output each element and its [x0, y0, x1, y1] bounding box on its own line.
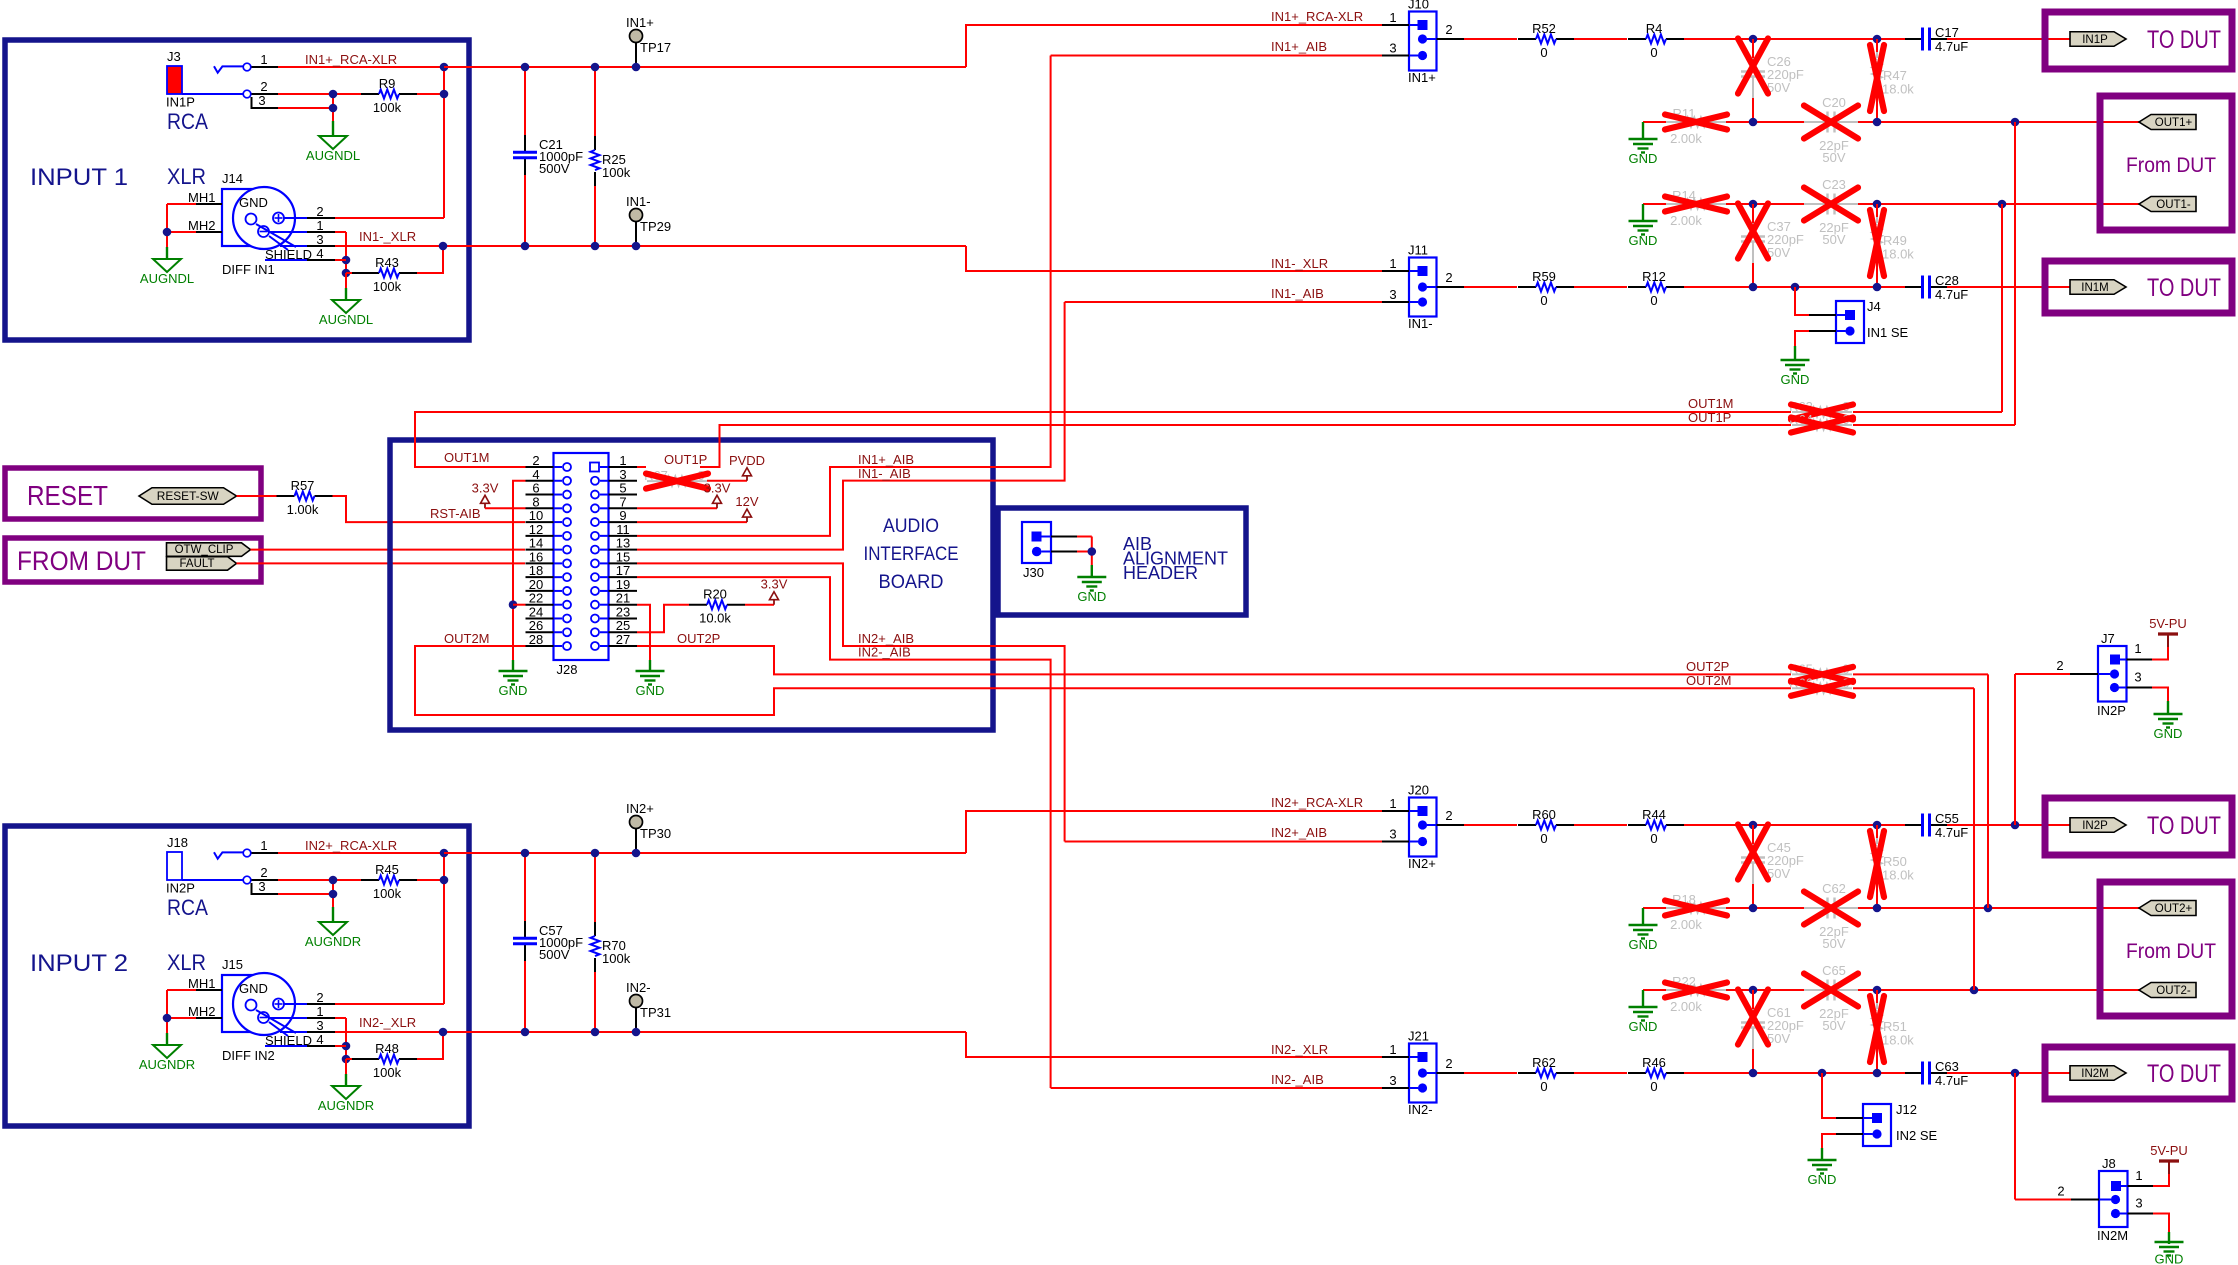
- wire OUT2+ riser: [1987, 674, 1989, 908]
- svg-text:IN2+: IN2+: [626, 801, 654, 816]
- svg-text:J8: J8: [2102, 1156, 2116, 1171]
- ground GND (J28 left): [499, 670, 528, 672]
- svg-text:GND: GND: [636, 683, 665, 698]
- svg-text:J11: J11: [1408, 243, 1428, 258]
- svg-text:RCA: RCA: [167, 109, 208, 134]
- ground GND (J28 right): [636, 670, 665, 672]
- resistor R46: [1628, 1072, 1646, 1074]
- svg-text:R62: R62: [1532, 1055, 1556, 1070]
- svg-text:OTW_CLIP: OTW_CLIP: [175, 544, 234, 556]
- svg-text:R52: R52: [1532, 21, 1556, 36]
- svg-text:IN1P: IN1P: [166, 95, 195, 110]
- svg-text:R12: R12: [1642, 269, 1666, 284]
- svg-text:C62: C62: [1822, 881, 1846, 896]
- resistor R65 (DNP 0-ohm): [1792, 673, 1812, 675]
- power 12V: [746, 517, 748, 522]
- wire GND to R22: [1643, 989, 1666, 991]
- svg-text:8: 8: [532, 494, 539, 509]
- AIB ALIGNMENT HEADER harness box: [998, 508, 1246, 615]
- J28 pin 23: [609, 617, 638, 619]
- svg-text:17: 17: [616, 563, 630, 578]
- svg-text:IN2+_RCA-XLR: IN2+_RCA-XLR: [305, 838, 397, 853]
- svg-text:J12: J12: [1896, 1102, 1917, 1117]
- svg-text:4.7uF: 4.7uF: [1935, 1073, 1968, 1088]
- J20 pin 2: [1437, 824, 1465, 826]
- connector J21 (IN2-): [1409, 1044, 1437, 1103]
- wire jack ground tie: [332, 94, 334, 121]
- ground GND (OUT2+ term): [1629, 924, 1658, 926]
- resistor R43: [361, 272, 379, 274]
- power 3.3V (R20): [773, 600, 775, 605]
- wire C26 stubs: [1752, 39, 1754, 58]
- svg-text:IN1-_AIB: IN1-_AIB: [858, 466, 911, 481]
- wire jack ground tie: [332, 880, 334, 907]
- wire C55 to IN2P flag: [1947, 824, 2070, 826]
- J11 pin 2: [1437, 286, 1465, 288]
- svg-text:27: 27: [616, 632, 630, 647]
- svg-text:AUGNDL: AUGNDL: [319, 312, 373, 327]
- J18 pin 1: [252, 852, 279, 854]
- node IN1M: [2070, 280, 2126, 295]
- svg-text:IN2-_XLR: IN2-_XLR: [359, 1015, 416, 1030]
- J15 pin 1: [269, 1017, 307, 1019]
- J11 pin 3: [1382, 301, 1409, 303]
- ground GND (J7): [2154, 713, 2183, 715]
- wire IN1-_AIB from J28 pin 13: [637, 302, 1065, 550]
- svg-text:22: 22: [529, 591, 543, 606]
- svg-text:TO DUT: TO DUT: [2147, 812, 2221, 840]
- svg-text:TP29: TP29: [640, 219, 671, 234]
- wire R9 to bus: [417, 93, 444, 95]
- power PVDD: [746, 476, 748, 481]
- svg-text:PVDD: PVDD: [729, 453, 765, 468]
- svg-text:IN1 SE: IN1 SE: [1867, 325, 1909, 340]
- resistor R62: [1518, 1072, 1536, 1074]
- svg-text:J3: J3: [167, 49, 181, 64]
- svg-text:2.00k: 2.00k: [1670, 999, 1702, 1014]
- svg-text:2: 2: [1445, 808, 1452, 823]
- svg-text:5V-PU: 5V-PU: [2150, 1143, 2188, 1158]
- ground GND (J12): [1808, 1159, 1837, 1161]
- svg-text:AUGNDL: AUGNDL: [306, 148, 360, 163]
- resistor R57: [277, 495, 295, 497]
- J28 pin 15: [609, 562, 638, 564]
- svg-text:OUT1P: OUT1P: [664, 452, 707, 467]
- wire FAULT to J28 pin 16: [237, 562, 526, 564]
- ground GND (OUT1+ term): [1629, 138, 1658, 140]
- wire J8 pin2 riser to IN2M: [2015, 1199, 2071, 1201]
- J20 pin 1: [1382, 810, 1409, 812]
- wire R22 to C65: [1726, 989, 1804, 991]
- wire J3 pin 2 to R: [278, 93, 363, 95]
- svg-text:AUGNDL: AUGNDL: [140, 271, 194, 286]
- svg-text:OUT1M: OUT1M: [444, 450, 490, 465]
- svg-text:14: 14: [529, 536, 543, 551]
- wire OUT1P from J28 pin 1: [637, 466, 646, 468]
- J30 pin 1 wire: [1051, 536, 1077, 538]
- resistor R47 (DNP): [1876, 52, 1878, 58]
- J28 pin 10: [526, 521, 554, 523]
- svg-text:AUDIO: AUDIO: [883, 516, 939, 537]
- resistor R12: [1628, 286, 1646, 288]
- svg-text:TO DUT: TO DUT: [2147, 1060, 2221, 1088]
- wire OUT1+ riser: [2014, 122, 2016, 425]
- wire R51 stubs: [1876, 990, 1878, 1003]
- capacitor C21: [524, 135, 526, 152]
- svg-text:XLR: XLR: [167, 164, 206, 189]
- svg-text:FROM DUT: FROM DUT: [17, 546, 146, 576]
- node OUT1-: [2139, 197, 2196, 212]
- wire R46 to C63: [1684, 1072, 1905, 1074]
- wire J15 pin 2 to bus: [335, 1003, 444, 1005]
- wire J21 pin2 to R62: [1464, 1072, 1517, 1074]
- svg-text:TP30: TP30: [640, 826, 671, 841]
- svg-text:18.0k: 18.0k: [1882, 1033, 1914, 1048]
- wire OUT1M from J28 pin 2: [415, 412, 1791, 467]
- svg-text:R46: R46: [1642, 1055, 1666, 1070]
- J14 pin 3: [280, 245, 307, 247]
- svg-text:AUGNDR: AUGNDR: [139, 1057, 195, 1072]
- svg-text:IN2-: IN2-: [626, 980, 651, 995]
- svg-text:INTERFACE: INTERFACE: [864, 544, 959, 565]
- resistor R25: [594, 136, 596, 150]
- svg-text:0: 0: [1540, 293, 1547, 308]
- svg-text:2.00k: 2.00k: [1670, 131, 1702, 146]
- capacitor C37 (DNP): [1752, 223, 1754, 236]
- svg-text:100k: 100k: [602, 951, 631, 966]
- svg-text:0: 0: [1650, 45, 1657, 60]
- svg-text:GND: GND: [239, 195, 268, 210]
- wire J20 pin2 to R60: [1464, 824, 1517, 826]
- connector J7 (IN2P monitor): [2098, 646, 2127, 702]
- svg-text:1: 1: [2135, 1168, 2142, 1183]
- svg-text:IN2-_AIB: IN2-_AIB: [858, 645, 911, 660]
- svg-text:IN2P: IN2P: [166, 881, 195, 896]
- svg-text:2: 2: [1445, 1056, 1452, 1071]
- wire C65 to OUT2- flag: [1858, 989, 2139, 991]
- resistor R51 (DNP): [1876, 1003, 1878, 1009]
- wire OUT1M to OUT1- riser: [1853, 411, 2002, 413]
- ground GND (J8): [2155, 1241, 2184, 1243]
- J28 pin 11: [609, 535, 638, 537]
- svg-text:2: 2: [2056, 658, 2063, 673]
- test point TP30 (IN2+): [635, 828, 637, 853]
- node OUT1+: [2139, 115, 2196, 130]
- resistor R52: [1518, 38, 1536, 40]
- wire IN1-_XLR: [335, 245, 966, 247]
- svg-text:IN1+: IN1+: [1408, 70, 1436, 85]
- wire C63 to IN2M flag: [1947, 1072, 2070, 1074]
- svg-text:INPUT 2: INPUT 2: [30, 950, 128, 977]
- wire J15 pin 4: [335, 1045, 346, 1047]
- J28 pin 18: [526, 576, 554, 578]
- J28 pin 13: [609, 549, 638, 551]
- svg-text:J18: J18: [167, 835, 188, 850]
- wire R20 to 3.3V: [745, 604, 774, 606]
- svg-text:1: 1: [316, 218, 323, 233]
- port FAULT: [167, 557, 237, 571]
- wire J14 pin 2 to bus: [335, 217, 444, 219]
- svg-text:3: 3: [258, 93, 265, 108]
- ground AUGNDR: [153, 1045, 181, 1058]
- wire IN2-_AIB from J28 pin 17: [637, 577, 1051, 1088]
- svg-text:9: 9: [619, 508, 626, 523]
- wire RESET-SW to R57: [237, 495, 277, 497]
- svg-text:MH1: MH1: [188, 190, 215, 205]
- svg-text:23: 23: [616, 604, 630, 619]
- J28 pin 17: [609, 576, 638, 578]
- svg-text:IN2P: IN2P: [2082, 820, 2108, 832]
- J28 pin 7: [609, 507, 638, 509]
- svg-text:R59: R59: [1532, 269, 1556, 284]
- resistor R44: [1628, 824, 1646, 826]
- RESET harness box: [5, 468, 261, 519]
- svg-text:2.00k: 2.00k: [1670, 917, 1702, 932]
- svg-text:R48: R48: [375, 1041, 399, 1056]
- wire R59 to R12: [1574, 286, 1627, 288]
- ground GND (OUT2- term): [1629, 1006, 1658, 1008]
- wire J28 pin 25 to R20: [637, 605, 689, 633]
- J28 pin 12: [526, 535, 554, 537]
- wire C62 to OUT2+ flag: [1858, 907, 2139, 909]
- svg-text:16: 16: [529, 549, 543, 564]
- TO DUT box (IN2P): [2045, 798, 2232, 855]
- wire C17 to IN1P flag: [1947, 38, 2070, 40]
- wire J28 pin 3 to PVDD: [707, 480, 747, 482]
- svg-text:R44: R44: [1642, 807, 1666, 822]
- svg-text:R4: R4: [1646, 21, 1663, 36]
- svg-text:GND: GND: [1629, 1019, 1658, 1034]
- svg-text:2: 2: [260, 865, 267, 880]
- J7 pin 3: [2127, 687, 2153, 689]
- svg-text:IN2-: IN2-: [1408, 1102, 1433, 1117]
- svg-text:3: 3: [258, 879, 265, 894]
- J28 pin 28: [526, 645, 554, 647]
- svg-text:IN1+_AIB: IN1+_AIB: [1271, 39, 1327, 54]
- connector J8 (IN2M monitor): [2099, 1171, 2128, 1227]
- svg-text:3: 3: [316, 232, 323, 247]
- svg-text:20: 20: [529, 577, 543, 592]
- wire J7 pin3 to ground: [2152, 688, 2168, 702]
- wire J15 pin 1 jog: [335, 1017, 346, 1019]
- wire R49 stubs: [1876, 204, 1878, 217]
- capacitor C57: [524, 853, 526, 922]
- capacitor C63: [1905, 1072, 1923, 1074]
- ground GND (J4): [1781, 359, 1810, 361]
- ground GND (OUT1- term): [1629, 220, 1658, 222]
- svg-text:100k: 100k: [373, 279, 402, 294]
- wire R52 to R4: [1574, 38, 1627, 40]
- From DUT box (OUT1): [2100, 96, 2232, 230]
- wire shield tie: [345, 232, 347, 273]
- wire C23 to OUT1- flag: [1858, 203, 2139, 205]
- J28 pin 5: [609, 494, 638, 496]
- svg-text:3: 3: [1389, 287, 1396, 302]
- svg-text:J14: J14: [222, 171, 243, 186]
- svg-text:IN1+_RCA-XLR: IN1+_RCA-XLR: [305, 52, 397, 67]
- svg-text:J10: J10: [1408, 0, 1429, 12]
- FROM DUT harness box: [5, 538, 261, 582]
- svg-text:2: 2: [1445, 270, 1452, 285]
- J8 pin 3: [2128, 1213, 2154, 1215]
- svg-text:RESET-SW: RESET-SW: [157, 491, 219, 503]
- svg-text:BOARD: BOARD: [879, 572, 944, 593]
- resistor R66 (DNP 0-ohm): [1792, 687, 1812, 689]
- svg-text:DIFF IN1: DIFF IN1: [222, 262, 275, 277]
- J4 pin 1 wire: [1795, 287, 1809, 315]
- svg-text:0: 0: [1650, 831, 1657, 846]
- svg-text:IN2 SE: IN2 SE: [1896, 1128, 1938, 1143]
- svg-text:IN1+_AIB: IN1+_AIB: [858, 452, 914, 467]
- capacitor C62 (DNP): [1804, 907, 1828, 909]
- wire J8 pin1 to 5V-PU: [2153, 1174, 2169, 1186]
- svg-text:OUT1P: OUT1P: [1688, 410, 1731, 425]
- wire IN2+_RCA-XLR from J18 pin 1: [278, 852, 444, 854]
- wire OUT2M from J28 pin 28: [415, 646, 1791, 715]
- svg-text:From DUT: From DUT: [2126, 154, 2216, 177]
- svg-text:4: 4: [316, 1032, 323, 1047]
- svg-text:7: 7: [619, 494, 626, 509]
- wire J11 pin2 to R59: [1464, 286, 1517, 288]
- wire R45 to bus: [417, 879, 444, 881]
- ground AUGNDL: [332, 300, 360, 313]
- svg-text:3.3V: 3.3V: [704, 480, 731, 495]
- svg-text:J4: J4: [1867, 299, 1881, 314]
- J15 pin 3: [280, 1031, 307, 1033]
- svg-text:IN1M: IN1M: [2081, 282, 2108, 294]
- J3 pin 1: [252, 66, 279, 68]
- svg-text:1: 1: [1389, 10, 1396, 25]
- wire OUT2P to OUT2+ riser: [1853, 673, 1988, 675]
- J28 pin 19: [609, 590, 638, 592]
- svg-text:4.7uF: 4.7uF: [1935, 825, 1968, 840]
- svg-text:C63: C63: [1935, 1059, 1959, 1074]
- svg-text:18.0k: 18.0k: [1882, 82, 1914, 97]
- wire IN1- bus: [636, 245, 966, 247]
- svg-text:100k: 100k: [373, 886, 402, 901]
- J21 pin 3: [1382, 1087, 1409, 1089]
- wire C28 to IN1M flag: [1947, 286, 2070, 288]
- svg-text:2: 2: [532, 453, 539, 468]
- svg-text:OUT2-: OUT2-: [2156, 985, 2191, 997]
- svg-text:100k: 100k: [373, 1065, 402, 1080]
- svg-text:XLR: XLR: [167, 950, 206, 975]
- J28 pin 26: [526, 631, 554, 633]
- svg-text:2: 2: [316, 990, 323, 1005]
- wire J7 pin1 to 5V-PU: [2152, 647, 2168, 660]
- J28 pin 27: [609, 645, 638, 647]
- svg-text:TP31: TP31: [640, 1005, 671, 1020]
- svg-text:IN2+_AIB: IN2+_AIB: [1271, 825, 1327, 840]
- svg-text:26: 26: [529, 618, 543, 633]
- wire R48 up to net: [417, 1032, 443, 1059]
- wire OUT1P riser: [700, 425, 1791, 467]
- svg-text:5: 5: [619, 481, 626, 496]
- resistor R22 (DNP): [1666, 989, 1686, 991]
- svg-text:RCA: RCA: [167, 895, 208, 920]
- resistor R70: [594, 853, 596, 922]
- wire OUT2P from J28 pin 27: [637, 646, 1791, 674]
- svg-text:19: 19: [616, 577, 630, 592]
- svg-text:RST-AIB: RST-AIB: [430, 506, 481, 521]
- svg-text:J28: J28: [557, 662, 578, 677]
- svg-text:1: 1: [316, 1004, 323, 1019]
- svg-text:J30: J30: [1023, 565, 1044, 580]
- wire OUT1- riser: [2001, 204, 2003, 412]
- svg-text:50V: 50V: [1822, 150, 1845, 165]
- J28 pin 20: [526, 590, 554, 592]
- svg-text:J20: J20: [1408, 783, 1429, 798]
- J20 pin 3: [1382, 841, 1409, 843]
- svg-text:R60: R60: [1532, 807, 1556, 822]
- wire IN2+ bus: [444, 852, 966, 854]
- wire R62 to R46: [1574, 1072, 1627, 1074]
- power 3.3V (J28 pin 8): [484, 503, 486, 508]
- wire J28 pin4/22 ground tie: [513, 481, 526, 660]
- connector J10 (IN1+): [1409, 12, 1437, 71]
- svg-text:OUT1+: OUT1+: [2155, 117, 2193, 129]
- svg-text:6: 6: [532, 481, 539, 496]
- capacitor C55: [1905, 824, 1923, 826]
- J4 pin 2 wire: [1809, 330, 1836, 332]
- J28 pin 6: [526, 494, 554, 496]
- wire C37 stubs: [1752, 204, 1754, 223]
- svg-text:IN2M: IN2M: [2097, 1228, 2128, 1243]
- svg-text:IN2+_RCA-XLR: IN2+_RCA-XLR: [1271, 795, 1363, 810]
- power 3.3V (J28 pin 7): [716, 503, 718, 508]
- svg-text:J15: J15: [222, 957, 243, 972]
- capacitor C61 (DNP): [1752, 1009, 1754, 1022]
- svg-text:500V: 500V: [539, 161, 570, 176]
- wire IN2- bus: [636, 1031, 966, 1033]
- wire MH tie: [166, 204, 168, 247]
- svg-text:2: 2: [2057, 1184, 2064, 1199]
- connector J30: [1022, 522, 1051, 563]
- J30 pin 2 wire: [1051, 551, 1077, 553]
- svg-text:11: 11: [616, 522, 630, 537]
- svg-text:1: 1: [1389, 256, 1396, 271]
- wire MH tie: [166, 990, 168, 1033]
- wire GND to R11: [1643, 121, 1666, 123]
- wire R12 to C28: [1684, 286, 1905, 288]
- test point TP31 (IN2-): [635, 1007, 637, 1032]
- svg-text:IN2+: IN2+: [1408, 856, 1436, 871]
- capacitor C26 (DNP): [1752, 58, 1754, 71]
- resistor R18 (DNP): [1666, 907, 1686, 909]
- svg-text:GND: GND: [2154, 726, 2183, 741]
- wire J28 pin 7 to 3.3V: [637, 507, 717, 509]
- svg-text:50V: 50V: [1822, 232, 1845, 247]
- wire IN2-_XLR: [335, 1031, 966, 1033]
- wire shield to R48: [346, 1058, 352, 1060]
- resistor R48: [361, 1058, 379, 1060]
- RCA jack J3 (IN1P): [167, 66, 182, 94]
- connector J28 header: [554, 453, 609, 660]
- wire J7 pin2 riser to IN2P: [2015, 673, 2070, 675]
- J28 pin 24: [526, 617, 554, 619]
- wire shield to R43: [346, 272, 352, 274]
- svg-text:24: 24: [529, 604, 543, 619]
- wire J8 pin3 to ground: [2153, 1214, 2169, 1233]
- svg-text:OUT2+: OUT2+: [2155, 903, 2193, 915]
- AUDIO INTERFACE BOARD harness box: [390, 440, 993, 730]
- test point TP17 (IN1+): [635, 42, 637, 67]
- ground AUGNDL: [153, 259, 181, 272]
- capacitor C20 (DNP): [1804, 121, 1828, 123]
- svg-text:1: 1: [2134, 641, 2141, 656]
- svg-text:TO DUT: TO DUT: [2147, 274, 2221, 302]
- J28 pin 1: [609, 466, 638, 468]
